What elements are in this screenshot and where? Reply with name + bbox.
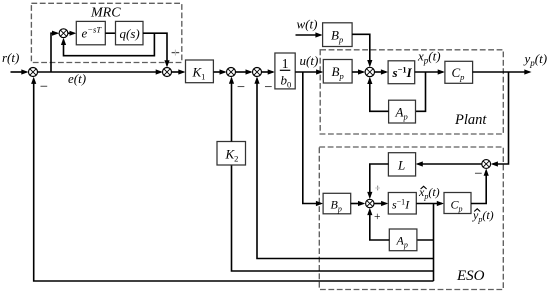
- sign plus at S7 top: [377, 186, 379, 191]
- wire Bp observer to S7: [351, 201, 366, 206]
- wire Cp output yp: [473, 69, 532, 74]
- wire q(s) output down to S2: [143, 33, 170, 67]
- wire S6 to L: [416, 161, 482, 166]
- wire u tap down to ESO Bp: [303, 72, 323, 206]
- wire Bp plant to S5: [352, 69, 365, 74]
- block s^-1 I plant integrator: [388, 61, 415, 84]
- svg-text:1: 1: [282, 56, 289, 71]
- wire L to S7: [367, 164, 388, 199]
- block Cp plant: [445, 61, 473, 83]
- svg-text:e(t): e(t): [68, 71, 86, 86]
- svg-text:yp(t): yp(t): [523, 51, 548, 68]
- block K2: [217, 142, 246, 166]
- summing junction S6 (observer error): [482, 160, 491, 169]
- node yhat_p(t) label: [472, 208, 494, 224]
- wire S4 to 1/b0: [261, 69, 275, 74]
- svg-text:−: −: [264, 80, 272, 96]
- block Bp plant: [323, 60, 352, 84]
- block K1: [186, 60, 214, 83]
- block Bp observer: [323, 193, 351, 214]
- wire integrator to Cp: [415, 69, 445, 74]
- wire S0 to delay block: [68, 31, 76, 36]
- wire S7 to observer integrator: [374, 201, 388, 206]
- svg-text:−: −: [40, 79, 48, 95]
- svg-text:r(t): r(t): [2, 50, 19, 65]
- svg-text:u(t): u(t): [300, 53, 319, 68]
- svg-text:−: −: [474, 166, 482, 182]
- sign plus at S2 (MRC output): [172, 52, 180, 54]
- block 1/b0: [275, 53, 295, 90]
- wire xhat feedback to K2: [232, 165, 434, 271]
- summing junction S7 (observer integrator input): [366, 199, 374, 207]
- svg-text:q(s): q(s): [120, 26, 140, 41]
- svg-text:L: L: [397, 158, 405, 173]
- svg-text:Plant: Plant: [454, 112, 487, 128]
- svg-text:−: −: [237, 80, 245, 96]
- wire w input: [296, 32, 323, 37]
- svg-text:xp(t): xp(t): [418, 185, 440, 201]
- summing junction S4: [253, 68, 262, 77]
- wire xp tap to Ap plant: [416, 72, 426, 111]
- block s^-1 I observer integrator: [388, 193, 416, 215]
- wire r input arrow: [11, 69, 29, 74]
- MRC dashed box: [31, 3, 181, 62]
- ESO dashed box: [319, 147, 503, 290]
- wire delay to q(s): [105, 32, 115, 34]
- block Cp observer: [444, 193, 471, 214]
- block Bp disturbance: [323, 23, 353, 47]
- block L observer gain: [388, 153, 415, 176]
- Plant dashed box: [320, 50, 503, 134]
- wire S2 to K1: [171, 69, 185, 74]
- wire observer integrator to Cp observer: [416, 201, 444, 206]
- svg-text:xp(t): xp(t): [417, 49, 441, 66]
- wire xhat feedback to S4: [254, 77, 433, 259]
- wire e(t) S1 to S2: [38, 69, 163, 74]
- wire Ap plant to S5: [367, 77, 388, 112]
- wire xhat bus down: [433, 204, 435, 282]
- block Ap plant: [389, 100, 416, 123]
- summing junction S5 (plant integrator input): [365, 67, 374, 76]
- node xhat_p(t) label: [418, 185, 440, 201]
- wire Bp disturbance to S5: [352, 34, 372, 67]
- svg-text:ESO: ESO: [456, 268, 485, 284]
- svg-text:+: +: [374, 211, 381, 223]
- wire K1 to S3: [213, 69, 226, 74]
- wire S3 to S4: [235, 69, 252, 74]
- block e^-sT: [76, 21, 105, 44]
- summing junction S0 (MRC input): [59, 29, 68, 38]
- wire yp tap down to S6: [491, 72, 509, 167]
- wire MRC inner feedback: [61, 33, 154, 56]
- svg-text:MRC: MRC: [90, 6, 121, 21]
- wire e tap up into MRC: [51, 31, 59, 72]
- summing junction S3: [227, 68, 236, 77]
- wire 1/b0 to Bp plant: [295, 69, 323, 74]
- summing junction S2: [163, 68, 172, 77]
- wire S5 to integrator: [374, 69, 388, 74]
- wire Cp observer up to S6: [471, 169, 489, 204]
- wire K2 to S3: [229, 77, 234, 142]
- wire feedback to S1: [31, 77, 433, 281]
- summing junction S1 (reference): [29, 68, 38, 77]
- wire xhat bus to Ap observer: [417, 239, 434, 241]
- wire Ap observer to S7: [367, 208, 389, 240]
- block q(s): [116, 21, 144, 44]
- block Ap observer: [389, 229, 417, 251]
- svg-text:w(t): w(t): [297, 16, 318, 31]
